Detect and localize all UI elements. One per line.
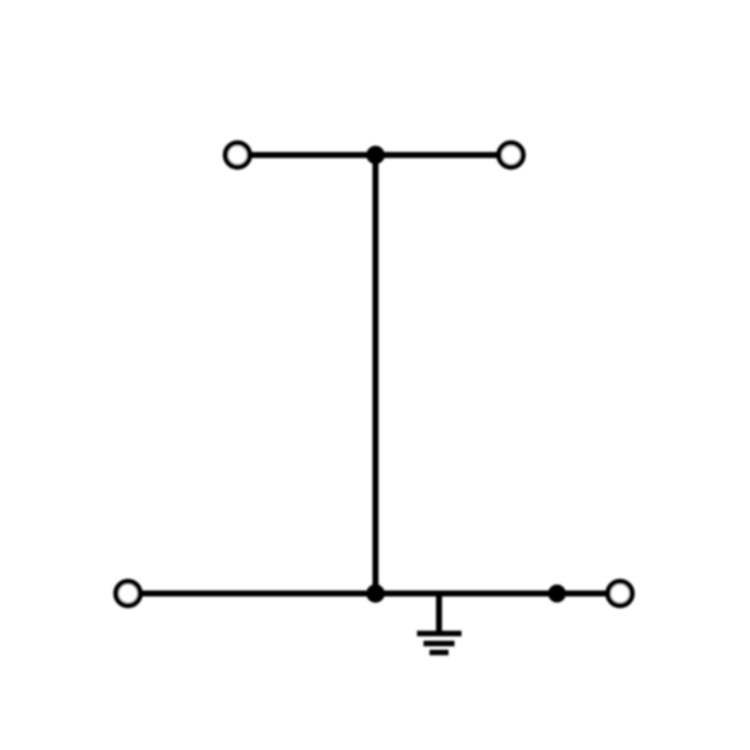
- wire: ground stub: [436, 594, 442, 632]
- wire: top rail from terminal 1 to terminal 2: [238, 152, 512, 158]
- terminal 2 (top right open circle): [499, 143, 523, 167]
- wire: bottom rail from terminal 3 to terminal 4: [128, 591, 620, 597]
- terminal 3 (bottom left open circle): [116, 582, 140, 606]
- terminal 4 (bottom right open circle): [608, 582, 632, 606]
- terminal 1 (top left open circle): [226, 143, 250, 167]
- ground: [417, 634, 462, 653]
- node B (bottom junction): [369, 587, 383, 601]
- wire: vertical link between top junction and bottom junction: [373, 155, 379, 594]
- node A (top junction): [369, 148, 383, 162]
- node C (bottom right junction): [550, 587, 563, 600]
